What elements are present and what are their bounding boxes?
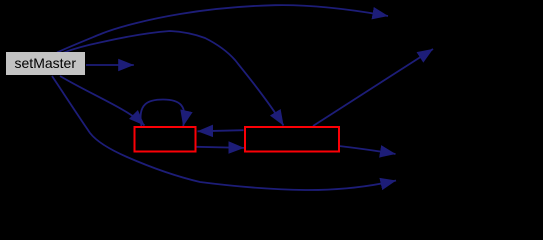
node R1 (truncated node, red box, left) xyxy=(135,127,196,152)
node setMaster (current function, grey box) xyxy=(6,52,85,75)
wire: edge node2 -> upper-right node (diagonal) xyxy=(313,49,433,126)
wire: edge node1 -> node2 (rightward arrow) xyxy=(197,147,245,148)
wire: edge setMaster -> bottom-right node (long bottom curve) xyxy=(52,76,396,190)
wire: edge setMaster -> node2 (curve into top of right red box) xyxy=(63,31,284,126)
wire: edge setMaster -> top-right node xyxy=(57,5,388,52)
wire: edge node2 -> node1 (leftward arrow) xyxy=(198,130,244,131)
node R2 (truncated node, red box, right) xyxy=(245,127,339,152)
wire: edge node2 -> right node xyxy=(339,146,396,154)
wire: self-loop on node1 xyxy=(141,100,185,127)
wire: edge setMaster -> middle node (short horizontal arrow) xyxy=(86,64,134,66)
wire: edge setMaster -> node1 (left red box) xyxy=(60,76,145,126)
